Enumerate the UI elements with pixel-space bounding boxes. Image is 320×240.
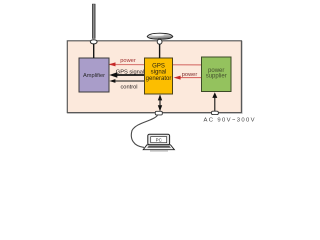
wire GPS signal arrow xyxy=(112,74,145,76)
svg-text:GPS: GPS xyxy=(152,63,165,69)
wire AC power into power supplier xyxy=(214,94,216,111)
PC laptop base xyxy=(143,145,174,150)
GPS antenna connector circle xyxy=(157,39,162,44)
svg-text:supplier: supplier xyxy=(206,74,227,80)
enclosure box xyxy=(68,42,242,114)
GPS antenna stem xyxy=(158,38,161,41)
connector AC on box bottom xyxy=(211,111,218,114)
svg-text:power: power xyxy=(120,58,136,64)
wire double arrow GPS generator to bottom connector xyxy=(159,96,161,111)
GPS signal generator box xyxy=(145,58,173,94)
PC keyboard xyxy=(147,146,171,148)
wire control arrow xyxy=(111,80,145,82)
svg-text:control: control xyxy=(120,85,137,91)
svg-text:Amplifier: Amplifier xyxy=(83,73,105,79)
power supplier box xyxy=(202,57,232,92)
cable from connector to PC xyxy=(131,115,157,147)
wire GPS antenna to generator xyxy=(159,44,161,58)
GPS antenna disc xyxy=(147,33,173,39)
svg-text:GPS signal: GPS signal xyxy=(116,69,144,75)
wire power arrow from supplier to GPS generator xyxy=(176,77,202,79)
wire power line from power supplier to amplifier (behind GPS box) xyxy=(109,64,202,66)
PC front edge xyxy=(150,150,168,152)
wire antenna to amplifier xyxy=(93,44,95,58)
svg-text:AC 90V~300V: AC 90V~300V xyxy=(204,118,256,124)
amplifier box xyxy=(79,58,109,92)
svg-text:power: power xyxy=(182,72,198,78)
svg-text:PC: PC xyxy=(156,137,162,142)
arrowhead power to amplifier xyxy=(109,62,116,66)
connector PC cable on box bottom xyxy=(155,111,162,115)
PC laptop screen xyxy=(148,134,170,145)
antenna rod above amplifier xyxy=(92,4,95,39)
svg-text:signal: signal xyxy=(151,70,167,76)
svg-text:generator: generator xyxy=(146,76,172,82)
antenna base ellipse connector xyxy=(90,40,97,44)
